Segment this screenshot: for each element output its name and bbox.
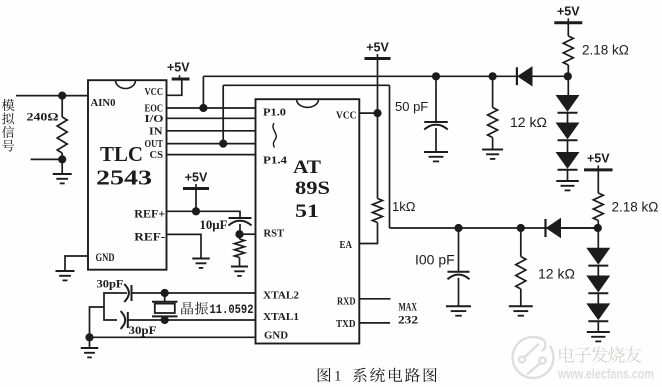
junction dot bottom of 240Ω [58,155,66,163]
svg-text:1: 1 [334,369,342,385]
wire left leg of 30pF caps [104,293,118,320]
svg-text:+5V: +5V [557,5,580,19]
wire CS to P1.4 [167,154,256,156]
svg-text:GND: GND [96,252,115,264]
IC U2 AT89S51 body [256,99,360,343]
capacitor C 30pF top [131,285,133,301]
svg-text:+5V: +5V [167,60,190,74]
svg-text:I/O: I/O [145,113,165,125]
crystal Y1 11.0592MHz [164,293,166,302]
capacitor C 30pF bottom [127,312,129,328]
wire chain1 to ground [567,170,569,181]
watermark text 电子发烧友 [559,346,574,362]
wire second bus drop [389,85,391,228]
wire OUT riser to second bus [222,85,224,143]
diode D2 horizontal [544,219,546,237]
wire EOC to P1.0 [167,107,256,109]
svg-text:EA: EA [340,239,353,251]
wire lower input stub [31,158,63,160]
LED chain 2 diode b [597,266,599,277]
ground below 50pF [424,151,448,153]
svg-text:REF+: REF+ [134,209,165,221]
resistor R 2.18kΩ (top) [567,23,569,36]
junction dot channel-2 node [594,224,602,232]
wire 1k to EA [359,223,377,244]
svg-text:GND: GND [264,330,288,342]
resistor R 1kΩ [373,199,383,223]
LED chain 1 diode a [557,96,579,112]
svg-text:12 kΩ: 12 kΩ [510,114,547,130]
wire ground tap from cap leg [90,307,105,337]
svg-text:232: 232 [398,312,418,326]
svg-text:RST: RST [264,228,285,240]
junction dot VCC node [373,109,381,117]
svg-text:XTAL2: XTAL2 [263,290,300,302]
ground below LED chain 1 [556,180,579,182]
svg-text:30pF: 30pF [129,323,157,337]
wire RST node to RST pin [240,233,256,235]
ground below LED chain 2 [587,331,610,333]
svg-text:CS: CS [150,149,164,161]
diode D1 horizontal [516,67,518,85]
wire top bus (EOC to LED channel 1) [203,75,517,77]
svg-text:www.elecfans.com: www.elecfans.com [557,366,654,382]
caption 图1 系统电路图 [318,368,331,382]
ground below 12k (bottom) [509,305,533,307]
resistor R 240Ω [61,96,63,117]
junction dot GND node [85,333,93,341]
resistor R 12kΩ (top) [492,76,494,107]
label 晶振11.0592 [181,302,193,315]
svg-text:P1.0: P1.0 [263,107,287,119]
wire XTAL2 row [132,292,256,294]
junction dot on REF+ wire [192,207,200,215]
svg-text:10µF: 10µF [200,218,228,232]
wire second bus to LED channel 2 [390,227,598,229]
junction dot XTAL1 node [161,316,169,324]
node analog-input top stub [16,95,88,97]
svg-text:240Ω: 240Ω [27,110,59,124]
junction dot channel-1 node [564,72,572,80]
wire TLC GND pin [65,256,88,271]
wire XTAL1 row [128,319,256,321]
wire chain2 to ground [597,321,599,331]
svg-text:11.0592: 11.0592 [210,302,254,317]
svg-text:2.18 kΩ: 2.18 kΩ [582,43,629,58]
junction dot RST node [235,230,243,238]
wire RXD stub [359,298,390,300]
LED chain 1 diode b [567,113,569,123]
junction dot on EOC wire [199,104,207,112]
svg-text:RXD: RXD [337,296,356,308]
svg-text:12 kΩ: 12 kΩ [538,266,575,282]
svg-text:VCC: VCC [145,86,164,98]
wire TLC VCC to +5V [167,79,182,95]
svg-text:IN: IN [149,125,163,137]
wire EOC riser to top bus [202,76,204,108]
LED chain 2 diode a [587,248,609,263]
ground below crystal node [89,337,91,347]
resistor R 2.18kΩ (bottom) [597,170,599,193]
IC U1 TLC2543 body [88,80,167,270]
wire second bus horizontal [223,84,389,86]
junction dot XTAL2 node [161,289,169,297]
resistor RST pull-down [235,239,245,257]
capacitor C 100pF [458,228,460,271]
ground below REF- [192,258,210,260]
junction dot 100pF node [454,224,462,232]
wire to ground below 240Ω [61,159,63,173]
watermark logo circle [513,337,554,378]
ground below RST resistor [231,266,248,268]
svg-text:89S: 89S [295,178,330,199]
ground below 12k (top) [482,149,503,151]
svg-text:XTAL1: XTAL1 [263,311,299,323]
svg-text:REF-: REF- [134,231,165,243]
junction dot 12k node (bottom) [517,224,525,232]
pin squiggle P1.0..P1.4 [273,123,276,148]
ground below 240Ω [53,173,72,175]
ground below 100pF [446,305,471,307]
junction dot 50pF node [432,72,440,80]
svg-text:I00 pF: I00 pF [415,252,455,268]
svg-text:+5V: +5V [185,170,208,184]
label 模拟信号 (analog signal) [2,99,15,111]
wire OUT to P1.3 [167,143,256,145]
wire IN to P1.2 [167,130,256,132]
wire REF- to ground [167,234,202,258]
wire +5V column through VCC to 1k [377,59,379,199]
capacitor C 50pF [435,76,437,121]
resistor R 12kΩ (bottom) [520,228,522,257]
svg-text:AIN0: AIN0 [91,97,116,109]
wire REF+ row [167,211,241,218]
svg-text:2543: 2543 [96,166,152,190]
svg-text:TXD: TXD [336,318,356,330]
svg-text:+5V: +5V [587,152,610,166]
LED chain 1 diode c [567,141,569,153]
svg-text:AT: AT [293,157,321,178]
junction dot 12k node (top) [489,72,497,80]
svg-text:VCC: VCC [336,109,357,121]
wire +5V drop to REF+ [195,189,197,211]
ground below TLC GND [56,270,75,272]
wire TXD stub [359,322,390,324]
junction dot on AIN0 wire [58,92,66,100]
svg-text:2.18 kΩ: 2.18 kΩ [612,200,659,215]
junction dot on OUT wire [219,140,227,148]
svg-text:30pF: 30pF [97,277,124,291]
svg-text:1kΩ: 1kΩ [392,199,416,214]
svg-text:+5V: +5V [366,40,389,54]
svg-text:51: 51 [295,201,319,222]
svg-text:50 pF: 50 pF [395,99,428,114]
LED chain 2 diode c [597,294,599,304]
wire AT89 VCC pin [359,112,377,114]
wire I/O to P1.1 [167,117,256,119]
svg-text:TLC: TLC [100,142,143,166]
capacitor C 10µF [229,217,252,219]
svg-text:P1.4: P1.4 [263,155,288,167]
wire AT89 GND row [90,336,256,338]
